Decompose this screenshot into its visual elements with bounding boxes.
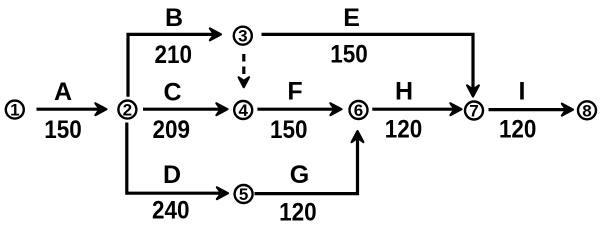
svg-text:I: I <box>519 78 526 106</box>
node 8 <box>578 101 596 120</box>
svg-text:7: 7 <box>469 102 478 121</box>
wire activity H arrow 6-7 <box>372 103 461 115</box>
wire dummy dashed arrow 3-4 <box>239 54 249 87</box>
wire activity I arrow 7-8 <box>489 104 574 116</box>
wire activity A arrow 1-2 <box>37 103 107 115</box>
svg-text:150: 150 <box>330 40 368 68</box>
svg-text:120: 120 <box>385 116 423 144</box>
svg-text:150: 150 <box>44 116 82 144</box>
node 5 <box>235 185 253 204</box>
svg-text:D: D <box>163 161 181 189</box>
node 2 <box>118 101 136 120</box>
svg-text:1: 1 <box>10 101 19 120</box>
node 3 <box>234 27 252 46</box>
svg-text:209: 209 <box>153 116 191 144</box>
svg-text:4: 4 <box>238 101 248 120</box>
svg-text:240: 240 <box>152 197 190 225</box>
svg-text:C: C <box>163 79 181 107</box>
svg-text:210: 210 <box>155 41 193 69</box>
svg-text:H: H <box>395 78 413 106</box>
svg-text:6: 6 <box>354 101 363 120</box>
wire activity B arrow 2-3 <box>128 29 221 97</box>
svg-text:B: B <box>165 4 183 32</box>
node 7 <box>465 102 483 121</box>
svg-text:A: A <box>54 78 72 106</box>
svg-text:120: 120 <box>499 116 537 144</box>
node 1 <box>6 101 24 120</box>
node 6 <box>350 101 368 120</box>
svg-text:G: G <box>290 161 309 189</box>
svg-text:120: 120 <box>279 198 317 226</box>
svg-text:150: 150 <box>270 116 308 144</box>
svg-text:3: 3 <box>238 27 247 46</box>
wire activity E arrow 3-7 <box>262 34 479 96</box>
svg-text:F: F <box>287 78 302 106</box>
svg-text:8: 8 <box>582 101 591 120</box>
node 4 <box>234 101 252 120</box>
wire activity F arrow 4-6 <box>257 103 341 115</box>
svg-text:E: E <box>343 4 360 32</box>
wire activity D arrow 2-5 <box>127 123 228 200</box>
svg-text:5: 5 <box>239 185 248 204</box>
wire activity C arrow 2-4 <box>143 103 228 115</box>
svg-text:2: 2 <box>123 101 132 120</box>
wire activity G arrow 5-6 <box>255 131 364 194</box>
